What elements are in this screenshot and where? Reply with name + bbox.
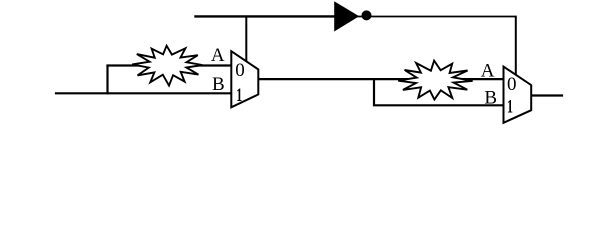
svg-text:B: B xyxy=(484,88,497,109)
label 1 (right mux port 1) xyxy=(507,97,513,118)
label B (right mux data input 1) xyxy=(484,88,497,109)
svg-text:1: 1 xyxy=(236,85,242,106)
wire: B branch into right mux xyxy=(373,104,506,106)
wire: inverted clock rail with corner down to right mux select xyxy=(356,16,516,75)
wire: A branch into left mux xyxy=(106,64,233,66)
inverter U1 (filled triangle) xyxy=(335,2,359,31)
svg-text:B: B xyxy=(212,74,225,95)
wire: primary input (bottom left, to B of left mux) xyxy=(55,92,234,94)
svg-text:A: A xyxy=(211,45,225,66)
wire: left mux output across to A of right mux xyxy=(258,78,506,80)
label 0 (left mux port 0) xyxy=(235,60,245,81)
svg-text:0: 0 xyxy=(507,74,517,95)
label B (left mux data input 1) xyxy=(212,74,225,95)
label 1 (left mux port 1) xyxy=(236,85,242,106)
wire: right mux output xyxy=(531,94,564,96)
label 0 (right mux port 0) xyxy=(507,74,517,95)
mux M2 (right 2:1 multiplexer) xyxy=(504,67,532,123)
svg-text:1: 1 xyxy=(507,97,513,118)
mux M1 (left 2:1 multiplexer) xyxy=(231,51,258,107)
label A (left mux data input 0) xyxy=(211,45,225,66)
glitch starburst on left A wire xyxy=(132,46,202,86)
wire: left branch vertical at tee xyxy=(106,66,108,95)
label A (right mux data input 0) xyxy=(481,60,495,81)
glitch starburst on right A wire xyxy=(398,61,472,100)
wire: right branch vertical at tee xyxy=(373,79,375,105)
svg-text:0: 0 xyxy=(235,60,245,81)
wire: top clock rail before inverter xyxy=(194,15,336,17)
wire: left mux select branch xyxy=(245,16,247,63)
svg-text:A: A xyxy=(481,60,495,81)
inverter U1 output bubble (filled) xyxy=(362,10,372,20)
